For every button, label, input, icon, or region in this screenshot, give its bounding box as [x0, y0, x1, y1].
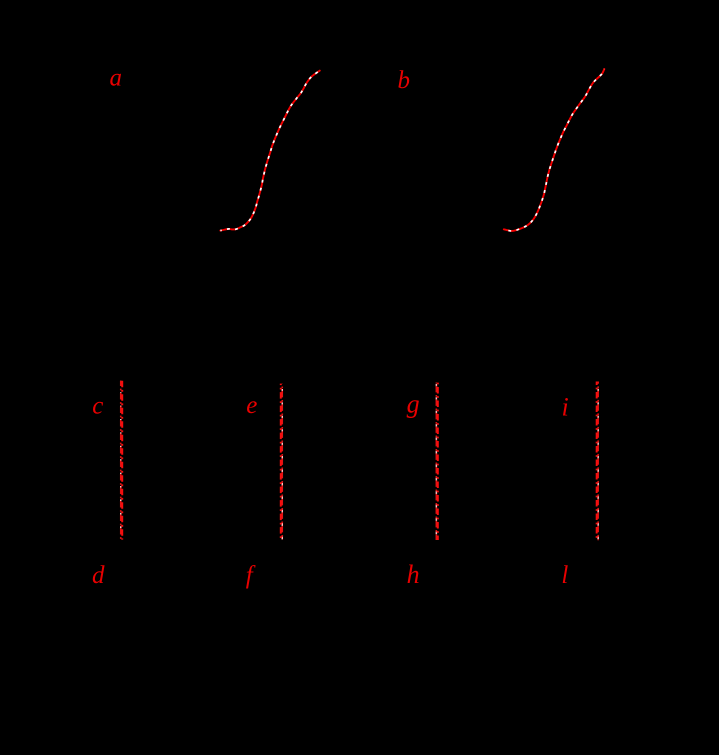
curve b white dash overlay	[504, 69, 605, 231]
vertical line g-h : companion red dashdot	[435, 383, 437, 541]
svg-text:i: i	[562, 393, 569, 422]
svg-text:a: a	[110, 64, 123, 91]
vertical line i-l : companion red dashdot	[597, 382, 599, 541]
svg-text:d: d	[92, 562, 105, 589]
label f	[246, 562, 256, 589]
svg-text:h: h	[407, 560, 420, 589]
label i	[562, 393, 569, 422]
svg-text:l: l	[561, 562, 568, 589]
vertical line g-h : main red dashdot	[437, 383, 439, 541]
vertical line i-l : white dash underlay	[597, 382, 599, 541]
vertical line c-d : white dash underlay	[120, 381, 122, 540]
svg-text:e: e	[246, 392, 257, 419]
label b	[398, 67, 411, 94]
vertical line e-f : companion red dashdot	[281, 384, 283, 540]
svg-text:g: g	[407, 389, 420, 418]
curve a (solid red)	[220, 71, 319, 231]
label a	[110, 64, 123, 91]
curve b (solid red)	[504, 69, 605, 231]
vertical line c-d : main red dashdot	[121, 381, 123, 540]
vertical line e-f : white dash underlay	[281, 384, 283, 540]
label h	[407, 560, 420, 589]
label c	[92, 392, 103, 419]
vertical line c-d : companion red dashdot	[120, 381, 122, 540]
label g	[407, 389, 420, 418]
svg-text:c: c	[92, 392, 103, 419]
curve a white dash overlay	[220, 71, 319, 231]
vertical line i-l : main red dashdot	[596, 382, 598, 541]
label d	[92, 562, 105, 589]
svg-text:b: b	[398, 67, 411, 94]
label e	[246, 392, 257, 419]
label l	[561, 562, 568, 589]
vertical line e-f : main red dashdot	[280, 384, 282, 540]
vertical line g-h : white dash underlay	[435, 383, 437, 541]
